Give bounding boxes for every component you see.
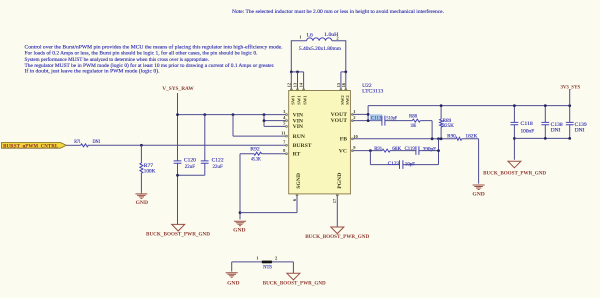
junction dots FB node <box>431 137 434 140</box>
svg-text:GND: GND <box>233 227 246 233</box>
junction C118 top/bottom <box>513 104 516 107</box>
ground BUCK_BOOST_PWR_GND under NT8 right <box>287 273 300 280</box>
junction dots SW nodes <box>290 71 293 74</box>
junction VC node <box>369 149 372 152</box>
svg-text:10pF: 10pF <box>405 162 415 167</box>
wire PGND to ground <box>336 195 338 227</box>
svg-text:RUN: RUN <box>293 134 306 140</box>
svg-text:10K: 10K <box>410 124 416 129</box>
svg-text:390pF: 390pF <box>423 147 437 152</box>
svg-text:BUCK_BOOST_PWR_GND: BUCK_BOOST_PWR_GND <box>146 232 210 238</box>
ground GND under R77 <box>135 192 147 198</box>
wire cap bottoms join <box>178 163 205 224</box>
svg-text:BUCK_BOOST_PWR_GND: BUCK_BOOST_PWR_GND <box>483 170 546 176</box>
wire R92 to GND <box>240 154 254 220</box>
wire R90 to GND <box>462 139 479 184</box>
node SGND junction <box>239 211 242 214</box>
svg-text:DNI: DNI <box>575 129 585 134</box>
svg-text:SW2: SW2 <box>345 95 350 105</box>
svg-text:SW1: SW1 <box>303 95 308 105</box>
svg-text:NT8: NT8 <box>263 265 272 270</box>
svg-text:U22: U22 <box>362 84 372 89</box>
junction R89 top <box>440 104 443 107</box>
ground GND under R90 <box>473 185 485 190</box>
svg-text:BURST_nPWM_CNTRL: BURST_nPWM_CNTRL <box>3 144 58 149</box>
svg-text:C119: C119 <box>405 147 416 152</box>
svg-text:GND: GND <box>227 281 240 287</box>
ground BUCK_BOOST_PWR_GND under PGND <box>331 227 344 234</box>
svg-text:100K: 100K <box>144 170 156 175</box>
svg-text:100nF: 100nF <box>521 130 535 135</box>
svg-text:22uF: 22uF <box>185 165 195 170</box>
svg-text:22uF: 22uF <box>213 165 223 170</box>
ground GND under NT8 left <box>226 273 238 278</box>
svg-text:If in doubt, just leave the re: If in doubt, just leave the regulator in… <box>25 70 160 75</box>
junction dots on VIN bus <box>176 113 179 116</box>
svg-text:BURST: BURST <box>293 143 312 149</box>
svg-text:Control over the Burst/nPWM pi: Control over the Burst/nPWM pin provides… <box>25 45 283 50</box>
wire SW pin drops <box>291 72 346 90</box>
svg-text:14: 14 <box>299 82 304 87</box>
svg-text:17: 17 <box>332 198 337 203</box>
node junction R77 <box>140 144 143 147</box>
svg-text:SW1: SW1 <box>290 95 295 105</box>
svg-text:13: 13 <box>293 82 298 87</box>
pin names inside U22 <box>290 95 350 189</box>
svg-text:825K: 825K <box>443 124 455 129</box>
junction C138 top/bottom <box>544 104 547 107</box>
svg-text:RT: RT <box>293 152 301 158</box>
svg-text:GND: GND <box>136 200 149 206</box>
wire port to R71 <box>66 144 80 146</box>
svg-text:45.3K: 45.3K <box>251 158 261 163</box>
junction cap bottoms <box>176 174 179 177</box>
capacitor C123 parallel branch <box>370 139 438 165</box>
port BURST_nPWM_CNTRL <box>2 143 67 150</box>
wire VC net <box>353 150 383 152</box>
svg-text:R71: R71 <box>74 140 81 145</box>
svg-text:16: 16 <box>341 82 346 87</box>
svg-text:The regulator MUST be in PWM m: The regulator MUST be in PWM mode (logic… <box>25 64 275 69</box>
capacitor C120 <box>174 161 182 163</box>
capacitor C113 highlighted <box>370 114 382 120</box>
resistor R89 <box>440 106 442 139</box>
svg-text:VC: VC <box>339 148 347 154</box>
svg-text:BUCK_BOOST_PWR_GND: BUCK_BOOST_PWR_GND <box>263 280 326 286</box>
svg-text:R91: R91 <box>374 147 382 152</box>
pin numbers U22 <box>281 82 358 203</box>
junction dots VOUT node <box>367 113 370 116</box>
ground BUCK_BOOST_PWR_GND under C118 <box>508 161 521 168</box>
svg-text:C138: C138 <box>551 123 564 128</box>
svg-text:SGND: SGND <box>296 173 302 189</box>
junction C139 top/bottom <box>568 104 571 107</box>
junction comp network right <box>437 149 440 152</box>
svg-text:BUCK_BOOST_PWR_GND: BUCK_BOOST_PWR_GND <box>305 234 369 240</box>
svg-text:R88: R88 <box>409 115 417 120</box>
svg-text:SW1: SW1 <box>297 95 302 105</box>
wire DNI cap bottoms <box>514 137 569 139</box>
wire R88 to FB node <box>420 121 432 139</box>
svg-text:GND: GND <box>472 192 485 198</box>
svg-text:C118: C118 <box>521 122 534 127</box>
ground BUCK_BOOST_PWR_GND under C120 <box>172 224 185 231</box>
wire output rail <box>368 105 570 107</box>
svg-text:For loads of 0.2 Amps or less,: For loads of 0.2 Amps or less, the Burst… <box>25 52 258 57</box>
svg-text:11: 11 <box>281 130 286 135</box>
wire branch to RUN pin <box>233 115 286 137</box>
ground GND under R92 <box>234 221 246 226</box>
svg-text:3V3_SYS: 3V3_SYS <box>561 85 581 91</box>
capacitor C122 <box>204 115 206 161</box>
wire R71 to BURST pin <box>88 144 286 146</box>
wire SGND to junction <box>240 195 297 213</box>
svg-text:DNI: DNI <box>93 140 101 145</box>
svg-text:V_SYS_RAW: V_SYS_RAW <box>162 86 194 92</box>
resistor R77 <box>140 163 143 173</box>
resistor R91 <box>382 149 390 152</box>
svg-text:10: 10 <box>353 134 358 139</box>
svg-text:DNI: DNI <box>551 129 561 134</box>
svg-text:R77: R77 <box>144 164 154 169</box>
resistor R88 <box>385 120 412 122</box>
resistor R92 <box>262 153 286 155</box>
capacitor C139 <box>569 106 571 139</box>
svg-text:VIN: VIN <box>293 124 304 130</box>
wire SW connection bars <box>291 71 346 73</box>
svg-text:L6: L6 <box>307 33 314 38</box>
capacitor C119 <box>390 150 416 152</box>
wire VIN bus <box>178 114 286 116</box>
capacitor C138 <box>544 106 546 139</box>
svg-text:12: 12 <box>286 82 291 87</box>
inductor L6 <box>291 41 346 72</box>
resistor R90 <box>456 137 462 140</box>
svg-text:C122: C122 <box>212 159 225 164</box>
wire R77 to GND <box>140 173 142 192</box>
svg-text:5.40x5.20x1.80mm: 5.40x5.20x1.80mm <box>299 47 341 52</box>
wire to R77 <box>140 145 142 163</box>
svg-text:System performance MUST be ana: System performance MUST be analyzed to d… <box>25 58 210 63</box>
svg-text:C113: C113 <box>371 117 382 122</box>
wire branch to VIN pins 4,5 <box>264 115 286 127</box>
svg-text:FB: FB <box>340 137 347 143</box>
resistor R71 <box>81 144 89 147</box>
svg-text:C139: C139 <box>575 123 588 128</box>
pin end circles <box>286 89 354 196</box>
svg-text:C123: C123 <box>388 162 400 167</box>
svg-text:Note: The selected inductor mu: Note: The selected inductor must be 2.00… <box>232 10 444 15</box>
svg-text:R92: R92 <box>250 148 260 153</box>
svg-text:C120: C120 <box>184 159 197 164</box>
svg-text:LTC3113: LTC3113 <box>362 90 384 95</box>
svg-text:R89: R89 <box>443 119 452 124</box>
wire V_SYS_RAW down through bus to C120 <box>177 93 179 161</box>
op-amp U22 LTC3113 regulator body <box>289 91 351 194</box>
svg-text:VOUT: VOUT <box>331 118 348 124</box>
svg-text:PGND: PGND <box>337 173 343 189</box>
wire FB net <box>353 138 456 140</box>
svg-text:R90: R90 <box>447 135 456 140</box>
wire VOUT pins to vertical <box>353 106 382 121</box>
net tie NT8 <box>232 262 294 273</box>
capacitor C118 <box>513 106 515 160</box>
instruction text block <box>25 45 283 74</box>
